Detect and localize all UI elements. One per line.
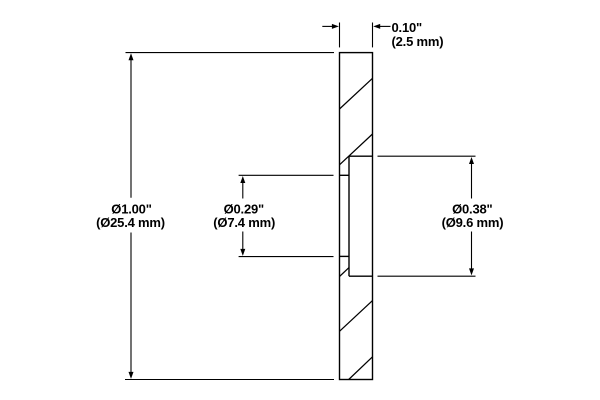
dimension 0.10" thickness: [322, 23, 390, 48]
dimension line segments: [242, 181, 244, 199]
svg-text:(Ø7.4 mm): (Ø7.4 mm): [213, 215, 275, 230]
counterbore bottom edge: [349, 275, 373, 277]
dimension line segments: [471, 162, 473, 199]
extension line top: [378, 155, 476, 157]
through-hole top edge: [340, 174, 350, 176]
arrow tails: [322, 25, 333, 27]
counterbore top edge: [349, 155, 373, 157]
section hatching: [340, 78, 373, 379]
svg-text:(Ø25.4 mm): (Ø25.4 mm): [96, 215, 165, 230]
svg-text:(Ø9.6 mm): (Ø9.6 mm): [442, 215, 504, 230]
through-hole bottom edge: [340, 255, 350, 257]
dimension D1.00" outer diameter: [125, 53, 334, 380]
extension line bottom: [378, 275, 476, 277]
extension line bottom: [239, 256, 334, 258]
dimension D0.29" through hole: [239, 175, 334, 256]
extension line top: [239, 174, 334, 176]
washer cross-section outline: [340, 53, 373, 380]
svg-text:0.10": 0.10": [392, 20, 423, 35]
extension line right: [372, 23, 374, 48]
extension line bottom: [125, 379, 334, 381]
dimension line segments: [130, 58, 132, 198]
dimension D0.38" counterbore: [378, 156, 476, 276]
svg-text:(2.5 mm): (2.5 mm): [392, 34, 444, 49]
extension line top: [126, 52, 335, 54]
counterbore step face: [348, 156, 350, 276]
extension line left: [339, 23, 341, 48]
